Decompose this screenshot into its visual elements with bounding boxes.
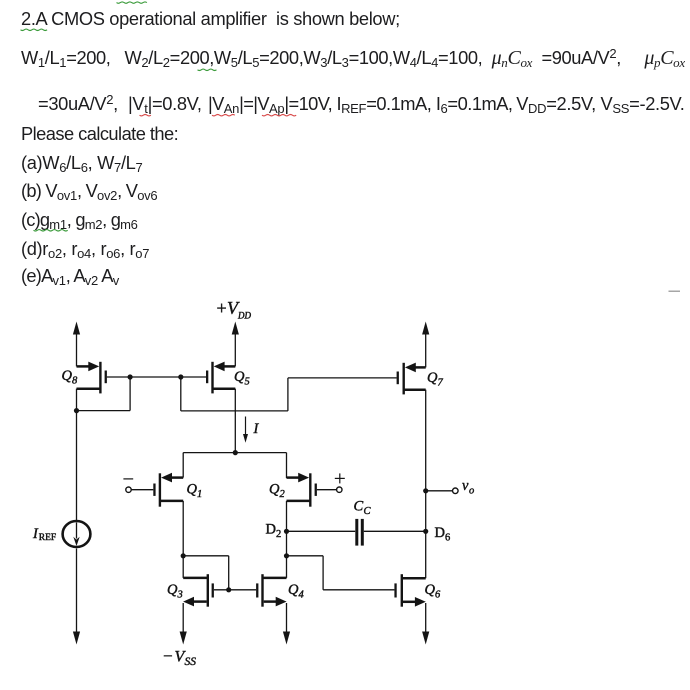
terminal vo	[453, 488, 459, 494]
svg-text:8: 8	[72, 375, 78, 386]
svg-text:o: o	[469, 486, 474, 497]
svg-text:D: D	[435, 525, 445, 541]
label CC	[354, 499, 372, 518]
wire IREF to VSS	[73, 549, 80, 645]
label Q5	[234, 369, 250, 388]
wire drain-gate tie vertical	[129, 377, 131, 411]
svg-text:Q: Q	[425, 582, 436, 598]
capacitor CC	[355, 519, 425, 546]
svg-text:5: 5	[245, 376, 250, 387]
node Q5 gate drop	[178, 374, 183, 379]
svg-text:C: C	[354, 499, 364, 515]
label Q7	[427, 370, 444, 389]
label -VSS	[163, 647, 196, 669]
svg-text:DD: DD	[237, 311, 251, 321]
wire vo stub	[426, 490, 453, 492]
wire gate bus Q8-Q5	[107, 376, 181, 378]
svg-text:+: +	[217, 298, 227, 318]
node D6	[423, 529, 428, 534]
label I	[253, 421, 260, 437]
wire Q5 drain to tail	[234, 389, 236, 453]
node vo	[423, 488, 428, 493]
label Q2	[269, 482, 286, 501]
label D2	[266, 522, 282, 541]
wire IREF top	[76, 411, 78, 521]
svg-text:Q: Q	[62, 368, 73, 384]
label Q1	[187, 482, 203, 501]
node Q8 drain / IREF	[74, 408, 79, 413]
svg-text:Q: Q	[288, 582, 299, 598]
svg-text:1: 1	[197, 489, 202, 500]
label vo	[462, 478, 474, 497]
wire gate bus under Q5	[181, 410, 288, 412]
problem text	[21, 8, 400, 30]
wire Q1 drain drop	[182, 501, 184, 556]
wire gate drop left of Q5	[180, 377, 182, 411]
svg-text:Q: Q	[234, 369, 245, 385]
svg-text:3: 3	[177, 590, 183, 601]
wire drain-gate tie horizontal	[77, 410, 131, 412]
svg-text:6: 6	[445, 533, 450, 544]
label D6	[435, 525, 451, 544]
wire tail bar	[183, 452, 286, 454]
wire vo to D6	[425, 491, 427, 532]
transistor Q8 (PMOS, diode-connected)	[77, 362, 107, 394]
transistor Q5 (PMOS mirror)	[181, 362, 236, 394]
svg-text:v: v	[462, 478, 469, 494]
svg-text:4: 4	[299, 590, 305, 601]
transistor Q3 (NMOS mirror, diode-connected)	[183, 556, 256, 607]
wire Q6 source to VSS	[422, 603, 429, 645]
wire Q3 diode tie horizontal	[183, 555, 229, 557]
svg-text:I: I	[253, 421, 260, 437]
svg-text:SS: SS	[185, 656, 197, 668]
wire gate bus riser	[287, 378, 289, 411]
svg-text:D: D	[266, 522, 276, 538]
svg-text:Q: Q	[427, 370, 438, 386]
node tail	[233, 450, 238, 455]
wire gate bus to Q7	[288, 377, 397, 379]
label IREF	[32, 526, 56, 543]
node Q3/Q4 gate	[226, 587, 231, 592]
wire D2 lower to Q6 gate	[287, 556, 395, 590]
node D2 lower	[284, 553, 289, 558]
svg-text:2: 2	[280, 489, 286, 500]
wire D2 down	[286, 531, 288, 556]
wire Q2 drain to D2	[286, 501, 288, 531]
wire Q7 drain to vo	[425, 390, 427, 491]
label Q4	[288, 582, 305, 601]
svg-text:Q: Q	[269, 482, 280, 498]
label Q3	[167, 582, 183, 601]
supply arrow +VDD over Q5	[232, 322, 239, 367]
svg-text:7: 7	[438, 378, 444, 389]
node D2	[284, 529, 289, 534]
supply arrow +VDD over Q7	[422, 322, 429, 368]
svg-text:6: 6	[435, 590, 441, 601]
transistor Q2 (PMOS input right)	[287, 453, 337, 507]
wire D6 to Q6 drain	[425, 531, 427, 578]
supply arrow +VDD over Q8	[73, 322, 80, 367]
current arrow I	[243, 417, 248, 443]
transistor Q1 (PMOS input left)	[131, 453, 183, 507]
svg-text:Q: Q	[167, 582, 178, 598]
label Q6	[425, 582, 442, 601]
wire D2 to Cc	[287, 530, 356, 532]
label +VDD	[217, 298, 252, 321]
label Q8	[62, 368, 79, 387]
wire Q8 drain drop	[76, 389, 78, 411]
current source IREF	[63, 521, 91, 547]
transistor Q6 (NMOS output)	[394, 574, 425, 607]
spell-check squiggle underlines	[21, 2, 297, 231]
svg-text:2: 2	[276, 529, 281, 540]
input terminal minus	[123, 479, 133, 493]
svg-text:REF: REF	[39, 533, 56, 543]
wire to Q4 drain	[286, 556, 288, 578]
svg-text:Q: Q	[187, 482, 198, 498]
wire Q3 diode tie vertical	[228, 556, 230, 590]
input terminal plus	[335, 473, 345, 492]
node gate tie	[128, 374, 133, 379]
stray mark	[669, 290, 681, 292]
transistor Q4 (NMOS mirror)	[256, 574, 287, 607]
svg-text:C: C	[364, 506, 372, 517]
svg-text:−: −	[163, 647, 173, 666]
node Q1 drain / Q3 drain	[181, 553, 186, 558]
wire Q3 source to VSS	[180, 603, 187, 645]
transistor Q7 (PMOS output)	[397, 363, 426, 395]
wire Q4 source to VSS	[283, 603, 290, 645]
